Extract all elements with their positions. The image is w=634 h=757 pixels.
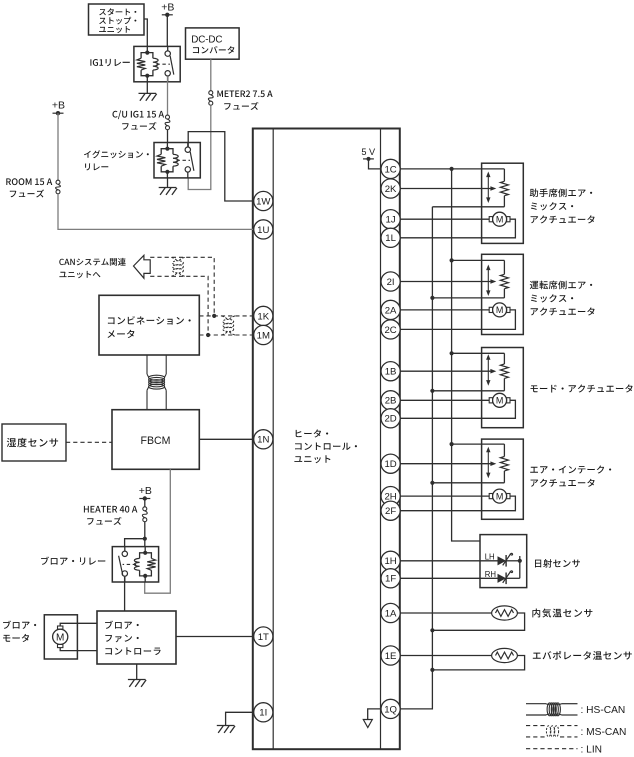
label フューズ2	[224, 102, 258, 110]
svg-text:FBCM: FBCM	[140, 435, 170, 447]
wire FBCM to 1N	[199, 438, 253, 440]
wire 1H to LH	[400, 560, 497, 562]
label CANシステム関連	[59, 258, 125, 266]
wire motor feed driver air mix	[400, 309, 489, 311]
pin 1M	[254, 325, 273, 344]
start-stop text1	[99, 8, 136, 15]
wire 5V to 1C	[369, 159, 381, 169]
pin 2I	[381, 272, 400, 291]
label ユニットへ	[59, 271, 100, 278]
legend HS-CAN	[526, 703, 546, 705]
svg-text:1E: 1E	[385, 651, 397, 662]
blower fan controller box	[97, 611, 176, 664]
DC-DC converter box	[186, 28, 240, 59]
blower motor box	[44, 615, 77, 659]
ground triangle at 1Q	[368, 709, 381, 720]
pin 1H	[381, 551, 400, 570]
junction node ground bus air intake	[430, 481, 434, 485]
svg-text:1W: 1W	[256, 196, 271, 207]
label イグニッション・	[84, 150, 149, 158]
label ブロア・	[105, 621, 139, 629]
wire motor return mode	[400, 400, 515, 418]
pin 2B	[381, 391, 400, 410]
label フューズ3	[10, 190, 44, 198]
MS-CAN dashed wires to 1K 1M	[199, 315, 253, 317]
wire ignition coil to ground	[167, 178, 169, 188]
wire 5V feed air intake	[450, 442, 454, 446]
label ブロア・リレー	[41, 557, 105, 565]
wire IG1 coil to ground	[146, 82, 148, 94]
label アクチュエータ4	[531, 479, 595, 487]
start-stop text3	[99, 26, 130, 33]
MS-CAN twist symbol meter	[222, 316, 228, 320]
actuator mode	[482, 348, 524, 428]
label モータ	[3, 634, 29, 642]
wire 5V feed mode	[450, 351, 454, 355]
label 内気温センサ	[532, 609, 592, 618]
resistor pot driver air mix	[503, 260, 505, 274]
svg-text:M: M	[56, 632, 64, 643]
svg-text:2B: 2B	[385, 396, 397, 407]
wire +B to ROOM fuse (gray)	[57, 113, 59, 180]
wire motor feed air intake	[400, 495, 489, 497]
label アクチュエータ1	[531, 215, 595, 223]
label 運転席側エア・	[530, 281, 592, 290]
label エア・インテーク・	[530, 466, 611, 474]
MS-CAN twist symbol top	[171, 257, 177, 261]
wire motor return passenger air mix	[400, 219, 515, 238]
pin 1B	[381, 362, 400, 381]
pin 1Q	[381, 699, 400, 718]
MS-CAN dashed pair to CAN units	[150, 257, 214, 314]
resistor pot passenger air mix	[503, 169, 505, 181]
relay blower	[112, 547, 158, 582]
svg-text:1T: 1T	[258, 632, 269, 643]
svg-text:1Q: 1Q	[384, 704, 397, 715]
pin 1I	[254, 703, 273, 722]
wire 5V feed driver air mix	[450, 258, 454, 262]
wire wiper air intake	[400, 463, 491, 465]
CAN block arrow	[134, 255, 151, 278]
svg-text:1U: 1U	[257, 225, 269, 236]
wire motor top to controller	[60, 623, 97, 627]
wire branch to blower relay switch	[125, 539, 145, 553]
label コントローラ	[105, 647, 160, 655]
pin 1C	[381, 159, 400, 178]
label コンビネーション・	[108, 316, 191, 325]
svg-text:2D: 2D	[384, 414, 396, 425]
svg-text:1H: 1H	[384, 556, 396, 567]
svg-text:M: M	[496, 491, 504, 501]
svg-text:DC-DC: DC-DC	[191, 35, 222, 46]
pot range double arrow mode	[487, 357, 489, 384]
label コンバータ	[193, 46, 235, 54]
label エバポレータ温センサ	[533, 651, 632, 660]
pin 1W	[254, 191, 273, 210]
motor M blower	[58, 626, 63, 629]
label 助手席側エア・	[530, 189, 592, 198]
label モード・アクチュエータ	[531, 384, 633, 392]
wire evap sensor return to ground bus	[432, 656, 524, 670]
pot range double arrow air intake	[487, 449, 489, 476]
junction node blower feed	[143, 537, 147, 541]
ground under controller	[128, 679, 146, 681]
svg-text:2I: 2I	[387, 277, 395, 288]
wire motor bottom to controller	[60, 647, 97, 651]
label フューズ4	[87, 517, 121, 525]
wire METER2 fuse to ignition relay switch (gray)	[188, 105, 211, 189]
label HEATER 40 A	[84, 506, 137, 513]
wire pot bottom to ground bus passenger air mix	[432, 206, 504, 208]
ground under IG1 relay	[139, 92, 157, 94]
wire motor feed passenger air mix	[400, 218, 489, 220]
legend MS-CAN	[526, 725, 545, 727]
label ファン・	[105, 635, 139, 643]
svg-text:2K: 2K	[385, 184, 397, 195]
wire pot bottom to ground bus air intake	[432, 482, 504, 484]
ground under ignition relay	[159, 187, 177, 189]
actuator air intake	[482, 439, 524, 519]
wire 5V into sun sensor	[519, 556, 521, 561]
svg-text:1I: 1I	[259, 708, 267, 719]
label IG1リレー	[90, 59, 129, 66]
junction node ground bus mode	[430, 389, 434, 393]
wire 1A to cabin temp sensor	[400, 612, 491, 614]
pin 2H	[381, 487, 400, 506]
start-stop unit box	[89, 4, 145, 35]
pin 1T	[254, 627, 273, 646]
combination meter box	[99, 295, 199, 355]
FBCM box	[112, 410, 199, 470]
pin 1D	[381, 454, 400, 473]
wire +B to HEATER fuse	[144, 499, 146, 507]
pin 1K	[254, 306, 273, 325]
junction node on 1K line	[212, 314, 216, 318]
resistor pot mode	[503, 353, 505, 364]
wire pot bottom to ground bus mode	[432, 390, 504, 392]
wire motor return air intake	[400, 496, 515, 511]
unit label line3	[294, 455, 330, 463]
wire pot bottom to ground bus driver air mix	[432, 297, 504, 299]
heater control unit box U1	[253, 129, 400, 750]
pin 2C	[381, 320, 400, 339]
pin 2K	[381, 179, 400, 198]
junction node on 1M line	[206, 333, 210, 337]
unit label ヒータ・コントロール・ユニット	[296, 429, 329, 437]
svg-text:: MS-CAN: : MS-CAN	[581, 727, 627, 738]
pin 1J	[381, 210, 400, 229]
label アクチュエータ2	[531, 307, 595, 315]
wire motor feed mode	[400, 399, 489, 401]
pin 1N	[254, 430, 273, 449]
wire wiper mode	[400, 370, 491, 372]
HS-CAN twisted pair meter to FBCM	[146, 355, 148, 374]
relay ignition	[154, 143, 200, 178]
pin 1F	[381, 569, 400, 588]
fuse ROOM 15A	[56, 180, 60, 184]
label C/U IG1 15 A	[113, 110, 165, 119]
wire motor return driver air mix	[400, 310, 515, 330]
pin 2A	[381, 300, 400, 319]
LIN dashed wire humidity to FBCM	[66, 441, 112, 443]
actuator passenger air mix	[482, 163, 524, 243]
wire ignition switch to 1W	[188, 132, 254, 201]
svg-text:: LIN: : LIN	[581, 745, 603, 756]
pot range double arrow driver air mix	[487, 267, 489, 294]
svg-text:2C: 2C	[384, 325, 396, 336]
junction node ground bus driver air mix	[430, 296, 434, 300]
label ブロア・ motor	[3, 621, 36, 629]
wire FBCM to blower relay coil (gray)	[145, 469, 171, 593]
sun sensor box 日射センサ	[480, 535, 527, 588]
label 日射センサ	[535, 559, 580, 568]
fuse HEATER 40A	[143, 507, 147, 511]
label METER2 7.5 A	[217, 90, 272, 97]
label メータ	[108, 330, 135, 338]
pin 1A	[381, 603, 400, 622]
svg-text:1L: 1L	[385, 233, 396, 244]
pin 1L	[381, 228, 400, 247]
label ミックス・2	[531, 294, 573, 302]
pin 1E	[381, 646, 400, 665]
svg-text:5 V: 5 V	[361, 147, 376, 157]
svg-text:1B: 1B	[385, 367, 397, 378]
wire start-stop to IG1 relay coil	[144, 19, 147, 46]
junction node sun sensor	[518, 559, 522, 563]
resistor pot air intake	[503, 444, 505, 456]
thermistor evaporator 温センサ	[492, 648, 518, 662]
svg-text:: HS-CAN: : HS-CAN	[581, 705, 626, 716]
pot range double arrow passenger air mix	[487, 174, 489, 201]
svg-text:M: M	[496, 305, 504, 315]
legend LIN	[526, 748, 578, 750]
svg-text:1N: 1N	[257, 435, 269, 446]
wire 1E to evaporator temp sensor	[400, 655, 491, 657]
svg-text:+B: +B	[139, 485, 152, 497]
pin 2F	[381, 501, 400, 520]
wire +B to IG1 relay switch	[166, 15, 168, 51]
relay IG1	[134, 46, 180, 81]
label ROOM 15 A	[6, 178, 52, 185]
svg-text:M: M	[496, 214, 504, 224]
wire wiper driver air mix	[400, 281, 491, 283]
label 湿度センサ	[7, 438, 58, 447]
actuator driver air mix	[482, 254, 524, 334]
wire cabin sensor return to ground bus	[432, 613, 524, 630]
humidity sensor box 湿度センサ	[2, 424, 66, 461]
svg-text:+B: +B	[52, 100, 65, 112]
wire controller to ground	[136, 664, 138, 680]
thermistor cabin temp 内気温センサ	[492, 606, 518, 620]
label リレー	[85, 163, 108, 170]
wire DC-DC to METER2 fuse (gray)	[210, 59, 212, 90]
svg-text:1M: 1M	[257, 330, 270, 341]
wire controller to 1T	[176, 636, 254, 638]
start-stop text2	[99, 17, 136, 25]
pin 1U	[254, 220, 273, 239]
5V bus wire	[400, 168, 451, 170]
svg-text:M: M	[496, 396, 504, 406]
unit label line2	[295, 443, 357, 451]
wire 1I to ground	[226, 712, 254, 725]
svg-text:1A: 1A	[385, 608, 397, 619]
pin 2D	[381, 409, 400, 428]
wire blower relay switch to fan controller	[124, 577, 126, 611]
ground bus wire	[400, 207, 432, 709]
unit inner connector strip lines	[272, 129, 274, 750]
svg-text:2F: 2F	[385, 506, 396, 517]
svg-text:1F: 1F	[385, 574, 396, 585]
wire 5V feed passenger air mix	[450, 167, 454, 171]
wire 1F to RH	[400, 577, 497, 579]
svg-text:1C: 1C	[384, 164, 396, 175]
svg-text:1K: 1K	[257, 311, 269, 322]
wire HEATER fuse to relay	[144, 522, 146, 548]
svg-text:1J: 1J	[386, 215, 396, 226]
fuse C/U IG1 15A	[166, 115, 170, 119]
wire wiper passenger air mix	[400, 188, 491, 190]
svg-text:2A: 2A	[385, 305, 397, 316]
wire IG1 switch to C/U IG1 fuse (gray)	[167, 76, 169, 115]
wire fuse to ignition relay coil	[167, 130, 169, 143]
label フューズ1	[122, 122, 156, 130]
svg-text:+B: +B	[161, 1, 174, 13]
ground at 1I	[217, 725, 235, 727]
svg-text:1D: 1D	[384, 459, 396, 470]
wire ROOM fuse to 1U (gray)	[58, 194, 254, 230]
label ミックス・1	[531, 202, 573, 210]
fuse METER2 7.5A	[209, 91, 213, 95]
